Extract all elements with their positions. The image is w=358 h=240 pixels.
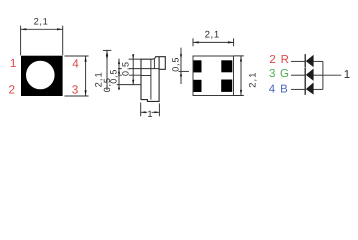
svg-text:2,1: 2,1: [205, 30, 220, 41]
bottom view package outline: [193, 56, 234, 96]
bottom view height dimension line: [240, 56, 242, 96]
top view package body (black square): [21, 56, 63, 96]
common anode bus: [322, 61, 324, 89]
dimension V1 up arrow: [106, 51, 108, 56]
label 0,5 (V3) background: [122, 61, 129, 76]
lens thickness extension line (right of side view): [179, 70, 190, 72]
wire pin4 to LED D3: [291, 88, 305, 90]
svg-text:1: 1: [147, 109, 152, 119]
dimension V3 lower arrow (pointing down): [132, 80, 134, 85]
svg-text:0,5: 0,5: [171, 57, 181, 72]
extension line lower (E5): [117, 84, 141, 86]
svg-text:2: 2: [269, 54, 275, 66]
side view body outline: [141, 57, 165, 102]
LED D1 cathode bar: [304, 54, 306, 67]
bottom view height dimension extension lines: [234, 56, 244, 96]
extension line package top (left of side view): [129, 58, 141, 60]
lens thickness lower arrow (pointing up): [180, 71, 182, 76]
LED D3 triangle: [306, 82, 314, 94]
top view width dimension left arrow: [21, 28, 27, 30]
svg-text:B: B: [280, 84, 288, 96]
bottom view width dimension ticks: [193, 38, 234, 46]
top view width dimension 2,1 line: [21, 28, 63, 30]
side view terminal band top line: [141, 68, 159, 70]
svg-text:1: 1: [344, 69, 350, 81]
side view terminal band bottom line: [141, 75, 151, 77]
thickness dimension 1 line: [141, 111, 160, 113]
pad 2 (bottom-left): [194, 80, 202, 92]
dimension 0,5 (V2) line: [118, 59, 120, 90]
lens thickness upper arrow (pointing down): [180, 54, 182, 59]
svg-text:G: G: [280, 68, 289, 80]
svg-text:3: 3: [72, 83, 79, 97]
bottom view height dimension top arrow: [240, 56, 242, 62]
pad 3 (bottom-right): [221, 80, 232, 92]
top view height dimension bottom arrow: [85, 90, 87, 96]
bottom view width dimension line: [193, 41, 234, 43]
bottom view width dimension left arrow: [193, 41, 199, 43]
svg-text:2: 2: [9, 83, 16, 97]
svg-text:2,1: 2,1: [34, 17, 49, 27]
svg-text:1: 1: [10, 56, 17, 70]
top view width dimension 2,1 extension lines: [21, 26, 63, 56]
dimension V2 bottom arrow (pointing up): [118, 85, 120, 90]
dimension 0,5 lens height (V1) line: [106, 50, 108, 90]
lens thickness dimension 0,5 line: [180, 48, 182, 84]
svg-text:4: 4: [269, 84, 276, 96]
top view width dimension right arrow: [57, 28, 63, 30]
side view lens apex extension line: [103, 49, 111, 51]
side view tab left edge: [158, 57, 160, 70]
wire D2 to bus: [313, 74, 323, 76]
svg-text:2,1: 2,1: [248, 71, 258, 87]
side view inner vertical line: [150, 59, 152, 99]
svg-text:R: R: [281, 54, 289, 66]
thickness dimension left arrow: [141, 111, 146, 113]
dimension V2 middle arrow (pointing up): [118, 69, 120, 74]
dimension V2 top arrow (pointing up): [118, 59, 120, 64]
dimension V1 down arrow: [106, 56, 108, 60]
wire D1 to bus: [313, 60, 323, 62]
top view height dimension top arrow: [85, 56, 87, 62]
extension line terminal band bottom: [118, 74, 141, 76]
LED D2 cathode bar: [304, 68, 306, 81]
pad 1 (top-left): [194, 60, 202, 72]
LED D1 triangle: [306, 55, 314, 67]
wire bus to pin 1: [323, 74, 341, 76]
top view lens (white circle): [26, 61, 55, 90]
LED D3 cathode bar: [304, 81, 306, 95]
extension line terminal band top: [118, 68, 141, 70]
pad 4 (top-right): [221, 60, 232, 72]
dimension V3 upper arrow (pointing down): [132, 54, 134, 59]
wire pin2 to LED D1: [291, 60, 305, 62]
dimension 0,5 (V3) line: [132, 54, 134, 84]
wire pin3 to LED D2: [291, 74, 305, 76]
svg-text:3: 3: [269, 68, 275, 80]
svg-text:0,5: 0,5: [121, 61, 131, 76]
bottom view width dimension right arrow: [228, 41, 234, 43]
svg-text:0,5: 0,5: [108, 69, 118, 84]
thickness dimension 1 extension lines: [141, 103, 160, 117]
top view height dimension extension lines: [65, 56, 89, 96]
top view height dimension line: [85, 56, 87, 96]
thickness dimension right arrow: [155, 111, 160, 113]
LED D2 triangle: [306, 69, 314, 81]
bottom view height dimension bottom arrow: [240, 90, 242, 96]
wire D3 to bus: [313, 88, 323, 90]
side view notch vertical line: [153, 59, 155, 69]
svg-text:4: 4: [72, 56, 79, 70]
